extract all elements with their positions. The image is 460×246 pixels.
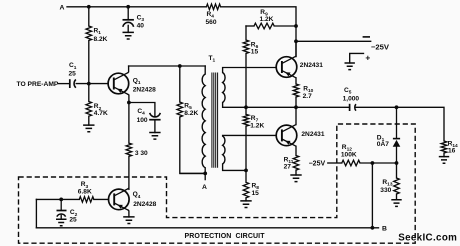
minus terminal tick [363,36,369,38]
resistor R2 [86,102,92,117]
junction Q1 emitter node [127,101,131,105]
svg-text:TO PRE-AMP: TO PRE-AMP [17,81,59,88]
wire R3 node [36,198,79,200]
capacitor C1 [70,79,76,88]
wire top rail right [221,7,296,57]
capacitor C2 [57,199,67,216]
value C2 25 [69,216,77,223]
value C3 40 [137,22,145,29]
wire Q2 emitter [295,78,297,84]
wire C2 bottom [60,215,62,219]
ground R8 [240,201,251,208]
wire secondary bottom top lead [223,134,277,137]
resistor R6 [243,40,249,54]
label C1 [69,62,77,71]
ground R2 [83,125,94,132]
junction node A bottom [203,172,207,176]
svg-text:−25V: −25V [371,42,390,51]
svg-text:2N2428: 2N2428 [133,201,156,208]
label C3 [137,15,145,24]
wire R6 top [245,26,247,40]
svg-text:B: B [382,225,387,232]
svg-text:6.8K: 6.8K [78,188,92,195]
transistor Q1 [108,73,129,95]
wire R13 top [396,163,398,178]
resistor R9 [254,23,274,29]
svg-text:A: A [60,4,65,11]
resistor 330 [126,143,132,156]
wire R12 right [360,162,397,164]
resistor R14 [441,141,447,153]
label TO PRE-AMP [17,81,59,88]
value Q4 2N2428 [133,201,156,208]
svg-text:560: 560 [206,19,217,26]
resistor R7 [243,114,249,126]
wire R2 top [88,84,90,102]
svg-text:3 30: 3 30 [135,150,148,157]
wire node B vertical [371,163,373,228]
label R12 [342,144,352,153]
label R2 [94,103,102,112]
svg-text:16: 16 [448,148,456,155]
junction bias node upper [244,105,248,109]
wire C1 to node [76,83,108,85]
value Q1 2N2428 [133,87,156,94]
value R11 27 [284,163,292,170]
value C5 1000 [343,95,360,102]
ground R13 [391,200,401,207]
ground supply [345,63,355,70]
transformer T1 primary [202,74,205,168]
wire -25V feed [296,40,371,42]
svg-text:SeekIC.com: SeekIC.com [398,233,457,244]
value 330 [135,150,148,157]
wire 330 bottom [128,156,130,188]
label R9 [260,9,268,18]
svg-text:0A7: 0A7 [377,141,389,148]
resistor R5 [177,102,183,117]
transformer T1 secondary bottom [223,136,225,164]
wire R9 left [246,25,254,27]
capacitor C5 [350,104,356,111]
svg-text:1.2K: 1.2K [250,123,264,130]
wire secondary bottom lead [223,164,246,170]
svg-text:2.7: 2.7 [303,93,312,100]
resistor R13 [394,178,400,194]
junction input node [87,82,91,86]
diode D1 [393,107,401,163]
label C5 [344,87,352,96]
value R6 15 [251,49,259,56]
ground C2 [56,219,67,226]
svg-text:27: 27 [284,163,292,170]
wire C4 branch [129,103,155,117]
node A (top) [60,4,65,11]
wire R1 top [88,7,90,26]
label D1 [377,135,385,144]
svg-text:100K: 100K [341,152,357,159]
wire R3 to Q4 base [94,198,109,200]
label -25V lower [309,160,326,167]
svg-text:A: A [202,184,207,191]
svg-text:−25V: −25V [309,160,326,167]
wire input [59,83,70,85]
label R13 [382,179,392,188]
capacitor C3 [123,20,134,27]
wire R6 bottom [245,54,247,108]
ground Q4 [123,217,134,224]
svg-text:8.2K: 8.2K [184,110,198,117]
wire R10 bottom [295,97,297,107]
svg-text:25: 25 [69,216,77,223]
wire Q3 collector [295,107,297,124]
wire supply positive [350,53,364,63]
wire Q1 collector [127,66,130,73]
wire R5 bottom [180,117,205,173]
value Q2 2N2431 [300,62,323,69]
svg-text:PROTECTION CIRCUIT: PROTECTION CIRCUIT [185,233,266,240]
node A label bottom [202,184,207,191]
junction bias node lower [244,169,248,173]
wire R1 bottom [88,41,90,84]
wire R7 top [245,107,247,114]
wire node A stub [204,173,206,179]
wire R8 top [245,170,247,182]
wire R14 bottom [443,153,445,157]
resistor R4 [206,4,220,10]
value R2 4.7K [94,110,108,117]
ground C4 [149,133,160,140]
svg-text:8.2K: 8.2K [94,36,108,43]
svg-text:15: 15 [252,190,260,197]
transistor Q3 [276,125,297,147]
svg-text:25: 25 [69,71,77,78]
ground R11 [290,175,301,182]
ground R14 [439,157,449,164]
label R1 [94,28,102,37]
svg-text:2N2431: 2N2431 [300,62,323,69]
node B label [382,225,387,232]
label -25V top [371,42,390,51]
resistor R11 [293,156,299,171]
label R7 [251,115,259,124]
label T1 [209,55,216,64]
resistor R12 [342,160,360,166]
wire R9 right [274,25,296,27]
value R1 8.2K [94,36,108,43]
plus sign [365,52,370,62]
label R11 [284,157,294,166]
wire C4 bottom [154,120,156,133]
resistor R10 [293,84,299,97]
value R7 1.2K [250,123,264,130]
value R8 15 [252,190,260,197]
junction output rail [294,105,298,109]
junction D1 bottom [395,161,399,165]
junction R9 right [294,24,298,28]
value C4 100 [137,117,148,124]
value Q3 2N2431 [301,131,324,138]
wire primary bottom lead [180,168,205,174]
wire output rail right [356,107,444,141]
value R9 1.2K [260,16,274,23]
resistor R3 [79,197,94,203]
wire primary top lead [204,66,206,74]
wire R7 bottom [245,126,247,170]
wire C3 stub [127,7,129,20]
wire secondary top lead [223,68,277,73]
svg-text:+: + [365,52,370,62]
ground C3 [123,32,134,39]
label R3 [81,181,89,190]
value R4 560 [206,19,217,26]
svg-text:15: 15 [251,49,259,56]
dashed protection-circuit boundary [19,124,416,243]
wire Q1 emitter [127,94,130,102]
transformer core [212,73,218,167]
junction -25V tap [294,39,298,43]
label PROTECTION CIRCUIT [185,233,266,240]
wire Q4 emitter [127,210,130,217]
resistor R1 [86,26,92,41]
wire -25V to R12 [328,162,342,164]
value R3 6.8K [78,188,92,195]
value R13 330 [380,187,391,194]
label R8 [252,182,260,191]
label R5 [184,102,192,111]
svg-text:1,000: 1,000 [343,95,360,102]
value R10 2.7 [303,93,312,100]
junction top rail / R1 [87,5,91,9]
junction top rail / C3 [126,5,130,9]
wire bottom rail [36,227,378,229]
transistor Q4 [109,189,130,211]
svg-text:2N2428: 2N2428 [133,87,156,94]
label R6 [251,42,259,51]
junction C2 node [59,198,63,202]
wire R13 bottom [396,194,398,200]
svg-text:2N2431: 2N2431 [301,131,324,138]
watermark SeekIC.com [398,233,457,244]
label R10 [303,86,313,95]
wire R5 top [179,66,181,102]
svg-text:4.7K: 4.7K [94,110,108,117]
svg-text:100: 100 [137,117,148,124]
junction node B top [371,161,375,165]
label R4 [207,11,215,20]
wire Q4 collector [127,188,130,191]
wire collector rail [129,65,206,67]
svg-text:1.2K: 1.2K [260,16,274,23]
value R12 100K [341,152,357,159]
label C2 [70,209,78,218]
label Q1 [133,77,141,86]
wire top rail left [67,6,206,8]
value R5 8.2K [184,110,198,117]
junction node B [371,226,375,230]
value R14 16 [448,148,456,155]
wire 330 top [128,103,130,144]
label C4 [137,108,145,117]
svg-text:40: 40 [137,22,145,29]
junction R5 top [178,64,182,68]
wire feedback loop left [35,199,37,227]
value C1 25 [69,71,77,78]
label Q4 [133,191,141,200]
wire R11 bottom [295,170,297,175]
wire R2 bottom [88,116,90,125]
wire Q2 collector [295,41,297,56]
capacitor C4 [149,113,160,120]
wire Q3 emitter [295,146,297,155]
resistor R8 [243,182,249,198]
wire R8 bottom [245,198,247,201]
label R14 [448,140,458,149]
wire C3 bottom [127,25,129,32]
transistor Q2 [276,56,297,78]
wire secondary top bottom lead [223,103,350,108]
transformer T1 secondary top [223,73,225,103]
junction D1 top [395,105,399,109]
svg-text:330: 330 [380,187,391,194]
value D1 0A7 [377,141,389,148]
